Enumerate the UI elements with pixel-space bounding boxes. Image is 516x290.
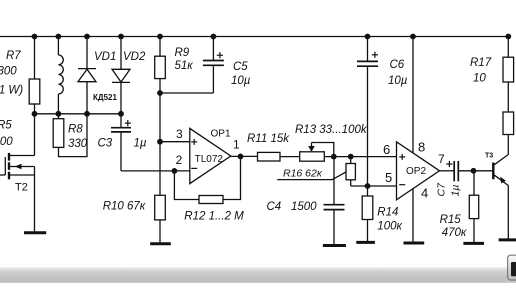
svg-text:R11 15k: R11 15k xyxy=(247,133,290,145)
wire: R8 bottom to VD1 node xyxy=(59,114,88,157)
node R16 top xyxy=(348,154,354,160)
scrollbar corner button xyxy=(508,255,516,280)
svg-text:T2: T2 xyxy=(15,182,28,194)
svg-text:3: 3 xyxy=(176,127,183,141)
svg-text:OP1: OP1 xyxy=(211,129,231,140)
resistor R7 xyxy=(29,37,40,114)
node C7-R15-T3 xyxy=(471,168,477,174)
node bus-VD2 xyxy=(118,111,124,117)
wire: OP1 pin3 input xyxy=(160,141,190,143)
capacitor C5 xyxy=(203,37,224,94)
diode VD1 xyxy=(78,37,96,114)
svg-text:5: 5 xyxy=(385,170,392,185)
op-amp OP2 xyxy=(397,142,440,200)
node bus-R8 xyxy=(56,111,62,117)
svg-text:1: 1 xyxy=(233,138,240,152)
capacitor C3 xyxy=(111,114,131,171)
plus mark OP1 pin3 xyxy=(191,139,197,145)
svg-text:OP2: OP2 xyxy=(406,166,426,177)
resistor R16 xyxy=(346,157,355,186)
svg-text:C3: C3 xyxy=(98,138,113,150)
resistor R11 xyxy=(258,152,281,161)
wire: OP2 pin5 input xyxy=(351,185,397,187)
svg-text:Т3: Т3 xyxy=(485,153,493,160)
wire: OP1 output xyxy=(231,155,258,157)
minus mark OP2 pin5 xyxy=(399,184,405,186)
svg-text:1µ: 1µ xyxy=(450,185,462,197)
capacitor C7 xyxy=(454,161,458,181)
node bus-VD1 xyxy=(84,111,90,117)
node R13 wiper xyxy=(331,154,337,160)
node OP1 output xyxy=(238,154,244,160)
inductor L1 xyxy=(58,37,63,114)
svg-text:R10 67к: R10 67к xyxy=(103,201,146,213)
svg-text:C6: C6 xyxy=(390,59,405,71)
resistor R14 xyxy=(362,186,373,242)
diode VD2 xyxy=(112,37,130,114)
svg-text:8: 8 xyxy=(418,140,425,155)
svg-text:R8: R8 xyxy=(68,124,83,136)
resistor R18 (unlabeled, cut at edge) xyxy=(503,82,514,155)
wire: T3 emitter to ground xyxy=(507,186,509,240)
node bus-R7 xyxy=(32,111,38,117)
svg-text:10: 10 xyxy=(473,73,486,85)
svg-text:7: 7 xyxy=(438,152,445,166)
wire: R11 to R13 xyxy=(280,156,300,158)
wire: OP2 output to C7 xyxy=(440,170,454,172)
scrollbar track xyxy=(0,267,516,283)
svg-text:КД521: КД521 xyxy=(93,93,117,102)
ground R15 xyxy=(463,242,484,245)
op-amp OP1 xyxy=(190,128,231,183)
svg-text:R16 62к: R16 62к xyxy=(283,168,323,180)
node rail-pin8 xyxy=(410,34,416,40)
plus mark C5 xyxy=(217,52,223,58)
svg-text:VD2: VD2 xyxy=(123,51,146,63)
svg-text:R7: R7 xyxy=(6,50,21,62)
wire: +supply rail (top) xyxy=(0,36,508,38)
svg-text:300: 300 xyxy=(0,66,17,78)
ground C4 xyxy=(323,244,346,247)
node rail-L1 xyxy=(56,34,62,40)
wire: R12 to output node xyxy=(223,156,241,199)
plus mark C7 xyxy=(446,161,452,167)
svg-text:R12 1...2 М: R12 1...2 М xyxy=(184,211,244,223)
svg-text:1500: 1500 xyxy=(291,201,317,213)
svg-text:TL072: TL072 xyxy=(195,154,224,165)
svg-text:R14: R14 xyxy=(377,207,398,219)
capacitor C6 xyxy=(357,37,378,187)
ground OP2 pin4 xyxy=(404,242,425,245)
node rail-C5 xyxy=(211,34,217,40)
svg-text:4: 4 xyxy=(421,186,428,201)
trimmer R13 xyxy=(300,152,325,161)
node rail-VD1 xyxy=(84,34,90,40)
plus mark OP2 pin6 xyxy=(399,154,405,160)
ground T3 emitter xyxy=(499,238,516,241)
svg-text:10µ: 10µ xyxy=(388,75,408,87)
plus mark C6 xyxy=(372,52,378,58)
wire: C5 bottom to R9 bottom xyxy=(160,92,213,94)
wire: T2 drain up to bus xyxy=(34,114,36,156)
resistor R9 xyxy=(155,37,166,142)
wire: OP2 pin6 input xyxy=(324,156,396,158)
svg-text:6: 6 xyxy=(383,142,390,157)
node rail-R9 xyxy=(157,34,163,40)
svg-text:C4: C4 xyxy=(267,201,282,213)
node R9-C5 xyxy=(157,90,163,96)
wire: T2 source to ground xyxy=(34,167,36,233)
svg-text:2: 2 xyxy=(176,153,183,167)
resistor R8 xyxy=(53,114,64,148)
svg-text:1µ: 1µ xyxy=(134,138,147,150)
ground T2 xyxy=(24,231,46,234)
node rail-R17 xyxy=(505,34,511,40)
node OP1 pin3 xyxy=(157,139,163,145)
node R14-C6 xyxy=(365,183,371,189)
svg-text:C7: C7 xyxy=(436,182,448,197)
wire: OP1 pin2 input from C3 xyxy=(121,170,190,172)
node rail-R7 xyxy=(32,34,38,40)
svg-text:330: 330 xyxy=(68,138,88,150)
wire: OP2 pin4 ground stub xyxy=(412,189,414,243)
transistor T2 (MOSFET) xyxy=(0,153,35,179)
wire: feedback to R12 xyxy=(174,171,199,200)
ground R14 xyxy=(356,241,375,244)
capacitor C4 xyxy=(324,157,345,246)
svg-text:10µ: 10µ xyxy=(231,75,251,87)
svg-text:100к: 100к xyxy=(377,221,402,233)
wiper of R13 xyxy=(308,143,334,157)
minus mark OP1 pin2 xyxy=(191,167,197,169)
svg-text:R17: R17 xyxy=(470,57,492,69)
svg-text:(1 W): (1 W) xyxy=(0,85,23,97)
node OP1 pin2 xyxy=(172,168,178,174)
svg-text:100: 100 xyxy=(0,136,13,148)
wire: C7 to T3 base xyxy=(459,170,492,172)
plus mark C3 xyxy=(125,120,131,126)
svg-text:R13 33...100k: R13 33...100k xyxy=(295,124,368,136)
resistor R12 xyxy=(199,196,223,204)
svg-text:C5: C5 xyxy=(233,61,248,73)
resistor R10 xyxy=(155,142,166,244)
svg-text:R9: R9 xyxy=(175,47,190,59)
wire: bus R7/L/VD1/VD2 xyxy=(35,113,122,115)
svg-text:VD1: VD1 xyxy=(94,51,116,63)
svg-text:R15: R15 xyxy=(440,214,462,226)
node rail-VD2 xyxy=(118,34,124,40)
wire: OP2 pin8 supply stub xyxy=(412,37,414,153)
node rail-C6 xyxy=(365,34,371,40)
transistor T3 xyxy=(493,155,508,186)
label pointer R16 xyxy=(277,172,346,180)
ground R10 xyxy=(150,242,171,245)
svg-text:51к: 51к xyxy=(175,60,194,72)
svg-text:R5: R5 xyxy=(0,120,12,132)
resistor R15 xyxy=(469,171,478,244)
svg-text:470к: 470к xyxy=(442,227,467,239)
resistor R17 xyxy=(503,37,514,83)
